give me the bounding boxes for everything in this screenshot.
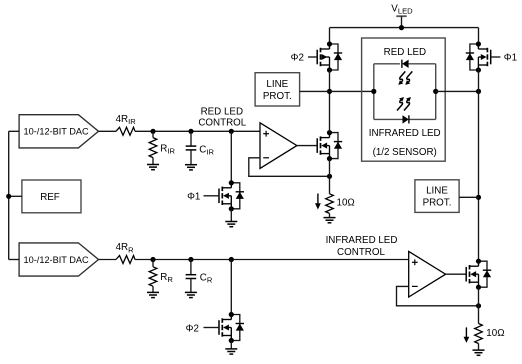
svg-text:Φ1: Φ1 (187, 192, 200, 203)
svg-text:INFRARED LED: INFRARED LED (326, 235, 398, 246)
svg-text:CONTROL: CONTROL (337, 247, 385, 258)
svg-text:REF: REF (40, 192, 60, 203)
svg-text:Φ1: Φ1 (504, 53, 517, 64)
svg-text:10-/12-BIT DAC: 10-/12-BIT DAC (24, 255, 90, 265)
svg-text:LINE: LINE (266, 79, 288, 90)
svg-text:10Ω: 10Ω (337, 197, 355, 208)
svg-text:RED LED: RED LED (201, 106, 243, 117)
svg-text:RED LED: RED LED (384, 47, 426, 58)
svg-text:LINE: LINE (426, 185, 448, 196)
svg-text:(1/2 SENSOR): (1/2 SENSOR) (373, 147, 437, 158)
svg-text:CONTROL: CONTROL (198, 118, 246, 129)
svg-text:PROT.: PROT. (423, 198, 452, 209)
svg-text:Φ2: Φ2 (291, 53, 304, 64)
svg-text:INFRARED LED: INFRARED LED (369, 128, 441, 139)
svg-text:10-/12-BIT DAC: 10-/12-BIT DAC (24, 127, 90, 137)
svg-text:10Ω: 10Ω (486, 328, 504, 339)
svg-text:PROT.: PROT. (263, 91, 292, 102)
svg-text:Φ2: Φ2 (186, 323, 199, 334)
